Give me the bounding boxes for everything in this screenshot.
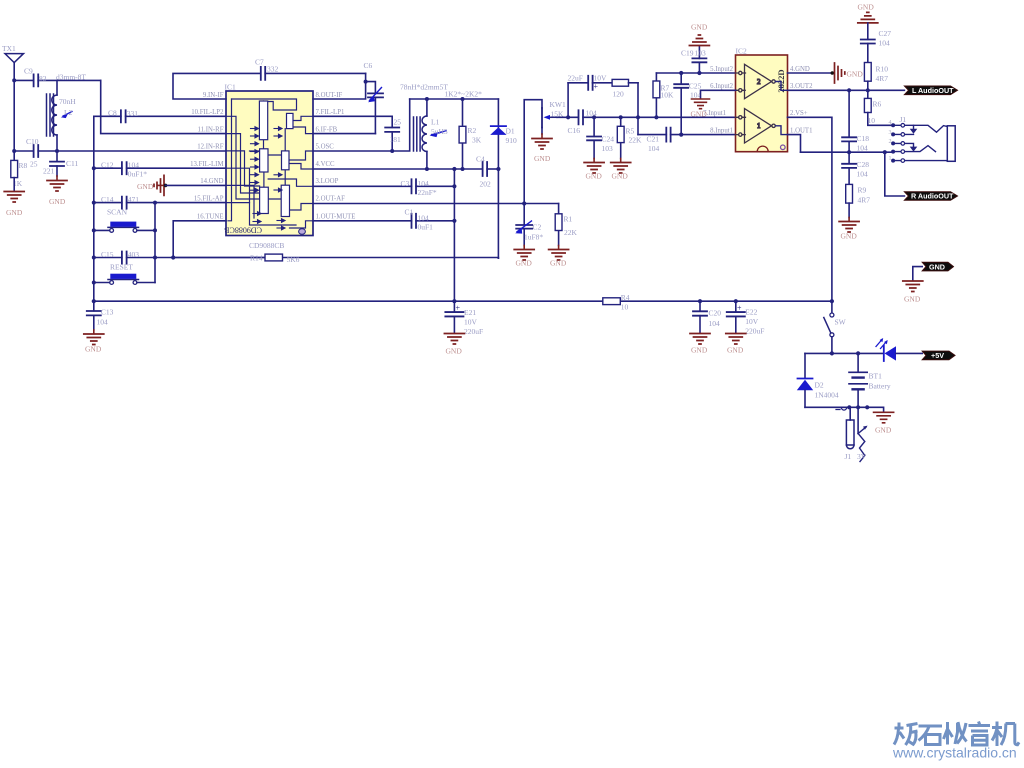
wire pin2 OUT-AF <box>313 203 559 205</box>
svg-text:3.OUT2: 3.OUT2 <box>790 83 813 90</box>
svg-text:104: 104 <box>857 144 869 153</box>
svg-text:R2: R2 <box>468 126 477 135</box>
svg-text:104: 104 <box>648 144 660 153</box>
svg-text:C10: C10 <box>26 137 39 146</box>
svg-text:5.OSC: 5.OSC <box>316 144 335 151</box>
wire 22uF left drop <box>567 83 569 118</box>
ring path with flex <box>905 146 936 152</box>
svg-text:104: 104 <box>418 179 430 188</box>
resistor R1 <box>555 204 577 246</box>
svg-text:GND: GND <box>516 259 533 268</box>
capacitor C13 <box>87 301 114 330</box>
svg-text:RESET: RESET <box>110 263 133 272</box>
node riser/C15 line <box>153 256 157 260</box>
wire wiper line <box>557 116 736 118</box>
svg-text:104: 104 <box>418 214 430 223</box>
wire pin9 riser <box>173 73 261 99</box>
ground above C19 (flipped) <box>689 23 709 46</box>
capacitor C9 <box>14 67 101 87</box>
svg-text:5uH5: 5uH5 <box>431 127 448 136</box>
svg-text:C8: C8 <box>108 109 117 118</box>
logo 矿石收音机 (drawn strokes) <box>894 722 1019 747</box>
wire battery top line <box>805 352 884 354</box>
capacitor C4 <box>476 155 498 189</box>
wire R channel line <box>801 151 894 153</box>
wire pin14 <box>166 184 227 186</box>
svg-text:E21: E21 <box>464 308 476 317</box>
IC1 pin names right <box>316 92 356 221</box>
battery BT1 <box>849 353 891 407</box>
inductor L2 <box>47 80 77 151</box>
wire pin4 VCC / tank bottom <box>313 168 482 170</box>
svg-text:10V: 10V <box>745 317 759 326</box>
svg-text:GND: GND <box>727 346 744 355</box>
wire R8 to ground <box>13 178 15 191</box>
svg-text:104: 104 <box>857 170 869 179</box>
node L2/C10 <box>55 149 59 153</box>
capacitor C14 <box>94 195 226 209</box>
svg-text:E22: E22 <box>745 308 757 317</box>
wire 120 right drop <box>637 83 639 135</box>
ground under C20 <box>690 334 710 355</box>
capacitor C16 <box>568 109 598 136</box>
svg-text:3V: 3V <box>857 452 867 461</box>
svg-text:12.IN-RF: 12.IN-RF <box>197 144 223 151</box>
svg-text:70nH: 70nH <box>59 97 76 106</box>
op-amp U-IC1 body <box>224 83 313 251</box>
resistor R5 <box>617 117 642 158</box>
potentiometer KW1 <box>542 100 566 134</box>
svg-text:2.VS+: 2.VS+ <box>790 110 808 117</box>
svg-text:KW1: KW1 <box>550 100 566 109</box>
capacitor C20 <box>693 301 721 333</box>
capacitor C21 <box>638 128 736 153</box>
svg-text:4R7: 4R7 <box>858 196 871 205</box>
svg-text:403: 403 <box>128 250 140 259</box>
svg-text:C16: C16 <box>568 126 581 135</box>
inductor L1 <box>414 99 448 169</box>
svg-text:13.FIL-LIM: 13.FIL-LIM <box>190 161 223 168</box>
svg-text:11.IN-RF: 11.IN-RF <box>198 126 224 133</box>
IC1 pin names left <box>190 92 224 221</box>
svg-text:C1: C1 <box>405 208 414 217</box>
svg-text:C9: C9 <box>24 67 33 76</box>
wire left rail x=93.8 <box>93 116 95 301</box>
svg-text:22K: 22K <box>629 136 643 145</box>
svg-text:2: 2 <box>889 139 892 145</box>
capacitor C24 <box>587 117 614 158</box>
ground under C11 <box>47 176 67 206</box>
node rail/RESET <box>92 281 96 285</box>
capacitor C8 <box>94 109 226 123</box>
svg-text:4.VCC: 4.VCC <box>316 161 336 168</box>
svg-text:+: + <box>456 304 461 313</box>
wire bottom rail <box>94 300 832 302</box>
svg-text:104: 104 <box>97 318 109 327</box>
wire pin6 <box>313 133 375 135</box>
svg-text:C19: C19 <box>681 49 694 58</box>
svg-text:16.TUNE: 16.TUNE <box>197 214 224 221</box>
capacitor C2 (trimmer) <box>515 204 543 246</box>
svg-text:22uF: 22uF <box>568 74 583 83</box>
jack body <box>947 126 955 162</box>
wire KW1 riser <box>524 100 542 204</box>
svg-text:220uF: 220uF <box>464 327 483 336</box>
svg-text:D2: D2 <box>815 381 824 390</box>
svg-text:5K6: 5K6 <box>287 255 300 264</box>
ground under R1 <box>549 246 569 268</box>
wire switch to battery line <box>831 337 833 354</box>
ground under C2 <box>514 246 534 268</box>
ground under C24 <box>584 159 604 181</box>
svg-text:1uF8*: 1uF8* <box>524 233 543 242</box>
svg-text:GND: GND <box>85 345 102 354</box>
switch contact lower <box>905 143 914 146</box>
wire riser down to RESET <box>154 230 156 282</box>
svg-text:C18: C18 <box>857 134 870 143</box>
svg-text:J1: J1 <box>900 115 907 124</box>
svg-text:4: 4 <box>889 120 892 126</box>
resistor R9 <box>846 184 871 217</box>
connector J1 battery holder pin <box>836 407 854 461</box>
svg-text:C24: C24 <box>602 135 615 144</box>
svg-text:6.Input2: 6.Input2 <box>710 83 733 90</box>
svg-text:1: 1 <box>889 156 892 162</box>
op-amp triangle 1 <box>736 109 776 143</box>
capacitor C12 <box>94 161 226 179</box>
svg-text:1.OUT-MUTE: 1.OUT-MUTE <box>316 214 356 221</box>
ground above C27 (flipped) <box>858 3 878 23</box>
svg-text:GND: GND <box>691 346 708 355</box>
wire antenna stem <box>13 63 15 161</box>
svg-text:104: 104 <box>879 39 891 48</box>
svg-text:3: 3 <box>889 130 892 136</box>
capacitor C25 <box>674 73 701 135</box>
wire GND flag <box>913 267 922 281</box>
svg-text:3K: 3K <box>472 136 482 145</box>
svg-text:+: + <box>594 82 599 91</box>
svg-text:GND: GND <box>6 208 23 217</box>
op-amp triangle 2 <box>736 64 776 98</box>
svg-text:10: 10 <box>621 303 629 312</box>
svg-text:GND: GND <box>691 110 708 119</box>
wire pin16 TUNE <box>173 221 226 258</box>
svg-text:C11: C11 <box>66 159 78 168</box>
LED D3 <box>876 338 922 361</box>
svg-text:22K: 22K <box>564 228 578 237</box>
ground right of battery <box>874 412 894 434</box>
svg-text:GND: GND <box>904 295 921 304</box>
svg-text:IC1: IC1 <box>225 83 237 92</box>
svg-text:C2: C2 <box>533 223 542 232</box>
svg-text:221: 221 <box>43 167 55 176</box>
svg-text:104: 104 <box>128 161 140 170</box>
wire R AudioOUT drop <box>885 152 905 196</box>
connector J1 headphone jack <box>889 115 956 163</box>
svg-text:9.IN-IF: 9.IN-IF <box>203 92 224 99</box>
svg-text:C25: C25 <box>689 82 702 91</box>
ground under GND flag <box>903 281 923 304</box>
switch SW <box>824 313 847 337</box>
node TUNE/R14 <box>171 255 175 259</box>
pushbutton SCAN <box>94 208 155 233</box>
svg-text:181: 181 <box>390 135 402 144</box>
svg-text:5.Input2: 5.Input2 <box>710 66 733 73</box>
pushbutton RESET <box>94 263 155 285</box>
IC1 internal circuit lines <box>226 99 313 228</box>
svg-text:L AudioOUT: L AudioOUT <box>912 86 954 95</box>
wire to ground right of battery <box>867 407 883 412</box>
svg-text:GND: GND <box>49 197 66 206</box>
svg-text:R8: R8 <box>19 161 28 170</box>
svg-text:IC2: IC2 <box>736 47 748 56</box>
resistor R2 <box>459 99 482 169</box>
wire tank top <box>410 98 499 100</box>
capacitor C6 (trimmer) <box>364 61 384 134</box>
svg-text:GND: GND <box>847 70 864 79</box>
svg-text:8.OUT-IF: 8.OUT-IF <box>316 92 343 99</box>
svg-text:202: 202 <box>480 180 492 189</box>
svg-text:GND: GND <box>929 262 945 271</box>
node C7/C6 <box>364 80 368 84</box>
resistor R14 <box>173 254 498 265</box>
capacitor E21 (electrolytic) <box>445 301 483 336</box>
wire IC2 pin4 <box>788 72 832 74</box>
node riser/C14 line <box>153 201 157 205</box>
svg-text:Battery: Battery <box>869 382 891 391</box>
varactor diode D1 <box>490 99 517 258</box>
svg-text:R10: R10 <box>876 65 889 74</box>
svg-text:78nH*d2mm5T: 78nH*d2mm5T <box>400 83 448 92</box>
resistor R7 <box>653 73 674 117</box>
svg-text:3.LOOP: 3.LOOP <box>316 178 339 185</box>
svg-text:10V: 10V <box>464 318 478 327</box>
svg-text:C27: C27 <box>879 29 892 38</box>
wire C7 drop to pin8 <box>313 73 366 99</box>
sideways ground at IC2 pin4 <box>831 63 864 83</box>
port GND flag <box>922 262 953 271</box>
capacitor C5 <box>313 116 401 151</box>
svg-text:C14: C14 <box>101 195 114 204</box>
sleeve path <box>905 160 948 162</box>
capacitor C15 <box>94 250 265 264</box>
node rail/C12 <box>92 166 96 170</box>
wire battery bottom line <box>805 406 867 408</box>
svg-text:332: 332 <box>267 65 279 74</box>
svg-text:GND: GND <box>586 172 603 181</box>
wire IC2 pin5 line <box>656 72 735 74</box>
node C5/OSC <box>390 149 394 153</box>
svg-text:GND: GND <box>841 232 858 241</box>
svg-text:L2: L2 <box>64 108 73 117</box>
node VCC riser <box>452 167 456 171</box>
svg-text:TX1: TX1 <box>2 44 16 53</box>
IC1 internal blocks <box>259 101 293 217</box>
svg-text:BT1: BT1 <box>869 372 883 381</box>
svg-text:1K2*~2K2*: 1K2*~2K2* <box>445 90 483 99</box>
IC2 pin names right <box>790 66 813 135</box>
IC2 pin names left <box>703 66 733 135</box>
svg-text:7.FIL-LP1: 7.FIL-LP1 <box>316 109 345 116</box>
wire pin5 OSC <box>313 99 410 151</box>
resistor R10 <box>864 63 888 91</box>
svg-text:C3: C3 <box>401 179 410 188</box>
svg-text:471: 471 <box>128 195 140 204</box>
contacts <box>891 123 895 127</box>
wire IC2 pin3 OUT2 / L channel <box>788 89 905 91</box>
node rail/C15 <box>92 256 96 260</box>
capacitor E22 (electrolytic) <box>727 301 765 335</box>
diode D2 1N4004 <box>797 353 839 407</box>
capacitor C18 <box>842 90 869 152</box>
svg-text:www.crystalradio.cn: www.crystalradio.cn <box>892 745 1017 761</box>
svg-text:6.IF-FB: 6.IF-FB <box>316 126 338 133</box>
wire triangle1 output to pin1 <box>775 126 787 135</box>
svg-text:SW: SW <box>835 318 847 327</box>
ground under E21 <box>444 334 464 356</box>
svg-text:GND: GND <box>612 172 629 181</box>
svg-text:GND: GND <box>446 347 463 356</box>
svg-text:C4: C4 <box>476 155 485 164</box>
capacitor C11 <box>43 151 78 176</box>
DC jack centre contact 3V <box>857 407 868 461</box>
svg-text:22nF*: 22nF* <box>418 188 437 197</box>
svg-text:4R7: 4R7 <box>876 74 889 83</box>
svg-text:GND: GND <box>534 154 551 163</box>
svg-text:1: 1 <box>757 122 761 130</box>
resistor R-120 <box>612 79 638 98</box>
node C4/D1 <box>496 167 500 171</box>
ground under R9 <box>839 218 859 241</box>
resistor R6 <box>864 90 893 125</box>
svg-text:R1: R1 <box>564 215 573 224</box>
wire d3mm tap down to pin11 <box>101 80 226 133</box>
svg-text:910: 910 <box>506 136 518 145</box>
wire IC2 pin1 OUT1 <box>788 135 801 153</box>
capacitor C1 <box>313 208 454 232</box>
svg-text:R9: R9 <box>858 186 867 195</box>
port +5V flag <box>922 351 955 360</box>
svg-text:25: 25 <box>30 160 38 169</box>
sideways ground at IC1 pin14 <box>137 175 167 195</box>
svg-text:1.OUT1: 1.OUT1 <box>790 127 812 134</box>
svg-text:R14: R14 <box>250 254 263 263</box>
svg-text:GND: GND <box>550 259 567 268</box>
svg-text:C6: C6 <box>364 61 373 70</box>
svg-text:25: 25 <box>394 118 402 127</box>
svg-text:CD9088CB: CD9088CB <box>224 226 262 235</box>
capacitor C28 <box>842 152 869 184</box>
capacitor C7 <box>255 58 366 80</box>
svg-text:R AudioOUT: R AudioOUT <box>911 192 954 201</box>
ground under C13 <box>84 330 104 354</box>
wire VCC riser <box>453 169 455 301</box>
tip path with flex <box>905 125 948 132</box>
svg-text:R6: R6 <box>873 100 882 109</box>
op-amp U-IC2 body <box>736 47 788 152</box>
svg-text:C13: C13 <box>101 308 114 317</box>
svg-text:R5: R5 <box>626 127 635 136</box>
ground under KW1 <box>532 134 552 163</box>
node rail/C14 <box>92 201 96 205</box>
capacitor E-22uF (electrolytic) <box>568 74 613 92</box>
switch contact upper <box>905 125 914 134</box>
svg-text:120: 120 <box>613 90 625 99</box>
svg-text:J1: J1 <box>845 452 852 461</box>
svg-text:1N4004: 1N4004 <box>815 391 839 400</box>
wire SCAN right riser <box>154 203 156 231</box>
svg-text:CD9088CB: CD9088CB <box>249 241 284 250</box>
svg-text:GND: GND <box>137 182 154 191</box>
svg-text:10.FIL-LP2: 10.FIL-LP2 <box>191 109 224 116</box>
svg-text:GND: GND <box>875 426 892 435</box>
svg-text:GND: GND <box>691 23 708 32</box>
wire triangle2 output to pin3 <box>775 82 787 91</box>
svg-text:C28: C28 <box>857 160 870 169</box>
port R AudioOUT <box>904 192 957 201</box>
svg-text:C12: C12 <box>101 161 114 170</box>
svg-text:C15: C15 <box>101 250 114 259</box>
node AF/KW1 <box>522 201 526 205</box>
capacitor C27 <box>861 23 891 63</box>
antenna TX1 <box>2 44 24 63</box>
svg-text:+5V: +5V <box>931 351 944 360</box>
svg-text:GND: GND <box>858 3 875 12</box>
svg-text:220uF: 220uF <box>745 327 764 336</box>
svg-text:L1: L1 <box>431 118 440 127</box>
ground at IC2 pin6 <box>691 99 710 119</box>
ground under R8 <box>4 192 24 218</box>
svg-text:R4: R4 <box>621 293 630 302</box>
capacitor C3 <box>313 179 454 197</box>
svg-text:14.GND: 14.GND <box>200 178 223 185</box>
svg-text:104: 104 <box>709 319 721 328</box>
resistor R8 <box>11 160 28 188</box>
svg-text:C20: C20 <box>709 309 722 318</box>
svg-text:d3mm-8T: d3mm-8T <box>56 73 86 82</box>
resistor R4 <box>603 293 630 312</box>
capacitor C19 <box>681 46 706 73</box>
svg-text:4.GND: 4.GND <box>790 66 810 73</box>
port L AudioOUT <box>904 86 957 95</box>
svg-text:SCAN: SCAN <box>107 208 128 217</box>
svg-text:0uF1*: 0uF1* <box>128 170 147 179</box>
node antenna/C9 <box>12 78 16 82</box>
svg-text:8.Input1: 8.Input1 <box>710 127 733 134</box>
wire IC2 pin2 VS riser <box>788 117 832 312</box>
svg-text:15.FIL-AP: 15.FIL-AP <box>194 195 224 202</box>
wire IC2 pin6 stub <box>701 90 736 98</box>
svg-text:D1: D1 <box>506 127 515 136</box>
ground under E22 <box>726 334 746 355</box>
node rail/SCAN <box>92 228 96 232</box>
node antenna/C10 <box>12 149 16 153</box>
svg-text:0uF1: 0uF1 <box>418 223 434 232</box>
ground under R5 <box>611 159 631 181</box>
svg-text:103: 103 <box>602 144 614 153</box>
svg-text:331: 331 <box>127 109 139 118</box>
svg-text:10K: 10K <box>661 91 675 100</box>
svg-text:82: 82 <box>39 74 47 83</box>
svg-text:+: + <box>737 304 742 313</box>
svg-text:C21: C21 <box>647 135 660 144</box>
IC1 internal arrows <box>251 127 286 230</box>
capacitor C10 <box>14 137 226 169</box>
svg-text:2: 2 <box>757 78 761 86</box>
svg-text:2.OUT-AF: 2.OUT-AF <box>316 195 346 202</box>
svg-text:C7: C7 <box>255 58 264 67</box>
svg-text:10: 10 <box>868 116 876 125</box>
